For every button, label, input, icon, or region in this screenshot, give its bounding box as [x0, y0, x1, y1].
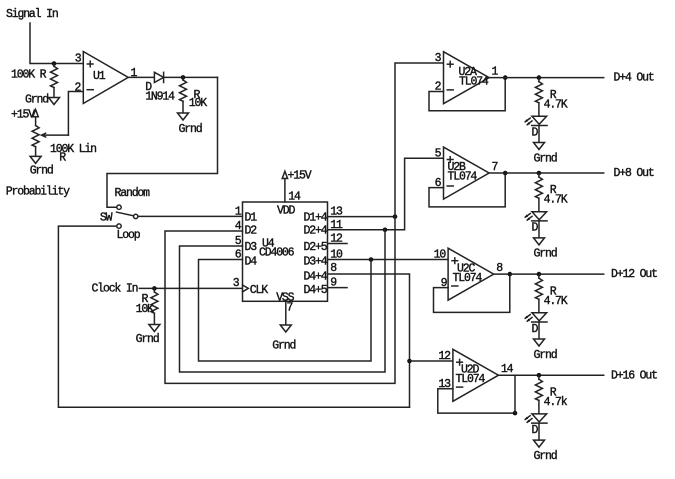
- wire U1 output to diode: [128, 76, 154, 78]
- svg-text:VDD: VDD: [277, 205, 295, 218]
- wire switch common to U4 pin 1: [138, 215, 243, 217]
- op-amp U2D minus sign: [457, 386, 463, 388]
- svg-text:4.7K: 4.7K: [544, 295, 568, 308]
- node junction at R top (U2B channel): [537, 171, 542, 176]
- svg-text:Probability: Probability: [6, 186, 70, 199]
- node junction at R top (U2A channel): [537, 75, 542, 80]
- wire U2B output: [489, 172, 604, 174]
- wire pot bottom to ground: [35, 147, 37, 157]
- svg-text:D+4 Out: D+4 Out: [614, 72, 654, 85]
- svg-text:8: 8: [330, 262, 337, 275]
- svg-text:1N914: 1N914: [145, 91, 175, 104]
- svg-text:D4+4: D4+4: [304, 271, 328, 284]
- resistor R1 100K body: [53, 64, 55, 67]
- node junction at R1 top: [52, 61, 57, 66]
- node junction D1+4: [393, 214, 398, 219]
- op-amp U2A plus sign: [447, 63, 453, 65]
- resistor R 4.7k body (U2D channel): [538, 375, 540, 379]
- wire +15V to pot: [35, 117, 37, 126]
- LED D (U2D channel): [532, 414, 547, 422]
- resistor R 4.7K body (U2B channel): [538, 173, 540, 177]
- resistor R4 10K body: [153, 288, 155, 292]
- potentiometer R2 100K Lin body: [32, 126, 39, 147]
- wire Signal In to U1 pin 3: [30, 23, 83, 64]
- wire U4 pin 10 D3+4 to U2C pin 10: [328, 259, 449, 261]
- wire LED to ground (U2A channel): [538, 126, 540, 143]
- svg-text:D3+4: D3+4: [304, 256, 328, 269]
- wire U4 VSS pin 7 to ground: [285, 301, 287, 325]
- svg-text:+15V: +15V: [288, 170, 312, 183]
- ground symbol (U2B channel): [534, 238, 545, 245]
- svg-text:D+8 Out: D+8 Out: [614, 167, 654, 180]
- ground symbol below R3: [178, 113, 189, 120]
- wire diode node to switch Random: [107, 77, 218, 207]
- svg-text:D2+5: D2+5: [304, 241, 328, 254]
- svg-text:Grnd: Grnd: [272, 340, 295, 353]
- op-amp U2D triangle: [453, 349, 499, 401]
- svg-text:2: 2: [75, 82, 82, 95]
- switch SW lever: [117, 212, 134, 216]
- wire LED to ground (U2C channel): [538, 322, 540, 339]
- svg-text:D+16 Out: D+16 Out: [611, 369, 657, 382]
- node junction at R3 top: [181, 75, 186, 80]
- svg-text:D3: D3: [245, 241, 258, 254]
- ground symbol (U2A channel): [534, 143, 545, 150]
- svg-text:14: 14: [501, 363, 514, 376]
- svg-text:14: 14: [288, 190, 301, 203]
- wire LED to ground (U2B channel): [538, 221, 540, 238]
- wire U2D output: [499, 374, 604, 376]
- svg-text:D2+4: D2+4: [304, 224, 328, 237]
- wire D1+4 riser to U2A pin 3: [395, 63, 444, 217]
- LED D (U2C channel): [532, 313, 547, 321]
- svg-text:TL074: TL074: [448, 171, 478, 184]
- node junction U2D feedback: [513, 411, 518, 416]
- op-amp U2B plus sign: [447, 159, 453, 161]
- svg-text:100K R: 100K R: [11, 69, 47, 82]
- svg-text:TL074: TL074: [456, 373, 486, 386]
- op-amp U2A triangle: [444, 52, 490, 104]
- svg-text:Random: Random: [115, 187, 151, 200]
- svg-text:Loop: Loop: [117, 229, 141, 242]
- svg-text:Grnd: Grnd: [534, 450, 557, 463]
- U4 clock chevron: [243, 285, 249, 292]
- wire U2D feedback: [438, 389, 515, 413]
- svg-text:4.7k: 4.7k: [544, 396, 568, 409]
- wire U2A feedback: [429, 78, 505, 111]
- node junction D3+4: [369, 257, 374, 262]
- svg-text:4.7K: 4.7K: [544, 194, 568, 207]
- node junction U2B output: [503, 171, 508, 176]
- switch SW Random contact: [117, 205, 121, 209]
- op-amp U1 triangle: [83, 52, 128, 104]
- switch SW common contact: [134, 214, 138, 218]
- svg-text:D: D: [532, 222, 539, 235]
- svg-text:4.7K: 4.7K: [544, 98, 568, 111]
- op-amp U2D plus sign: [457, 361, 463, 363]
- svg-text:D1: D1: [245, 212, 258, 225]
- wire U4 pin 13 D1+4: [328, 216, 396, 218]
- wire D3+4 loop back to U4 pin 6: [199, 260, 372, 362]
- wire U2A output: [489, 77, 604, 79]
- svg-text:CD4006: CD4006: [259, 247, 295, 260]
- wire U2C feedback: [434, 274, 510, 312]
- node junction D2+4: [383, 228, 388, 233]
- wire U4 pin 11 D2+4 to U2B pin 5: [328, 158, 444, 230]
- svg-text:+15V: +15V: [11, 109, 35, 122]
- op-amp U2A minus sign: [447, 89, 453, 91]
- wire U4 pin 8 D4+4 down to loop: [328, 274, 410, 407]
- wire U2C output: [494, 273, 604, 275]
- wire Clock In to U4 pin 3: [139, 287, 242, 289]
- svg-text:12: 12: [438, 350, 451, 363]
- ground symbol (U2D channel): [534, 440, 545, 447]
- svg-text:D4: D4: [245, 256, 258, 269]
- ground symbol below R4: [149, 325, 160, 332]
- wire D4+4 to U2D pin 12: [410, 360, 453, 362]
- op-amp U2C triangle: [448, 248, 494, 300]
- ground symbol below R1: [49, 98, 60, 105]
- switch SW Loop contact: [117, 224, 121, 228]
- svg-text:TL074: TL074: [453, 272, 483, 285]
- diode D 1N914: [154, 72, 163, 82]
- op-amp U2C plus sign: [452, 260, 458, 262]
- svg-text:1: 1: [492, 66, 499, 79]
- wire D1+4 loop back to U4 pin 4: [165, 217, 395, 384]
- svg-text:10: 10: [434, 249, 447, 262]
- svg-text:7: 7: [492, 161, 498, 174]
- node junction D4+4 at U2D input: [407, 359, 412, 364]
- op-amp U2C minus sign: [452, 285, 458, 287]
- LED D (U2A channel): [532, 116, 547, 124]
- op-amp U2B minus sign: [447, 185, 453, 187]
- wire diode to corner: [164, 76, 218, 78]
- wire +15V to U4 VDD pin 14: [284, 179, 286, 203]
- svg-text:Clock In: Clock In: [92, 282, 138, 295]
- svg-text:Grnd: Grnd: [534, 152, 557, 165]
- ground symbol below U4: [280, 325, 291, 332]
- wire wiper to U1 pin 2: [68, 92, 83, 136]
- resistor R3 10K body: [182, 77, 184, 80]
- resistor R 4.7K body (U2C channel): [538, 274, 540, 278]
- svg-text:D: D: [532, 323, 539, 336]
- wire U2D feedback riser: [514, 375, 516, 413]
- op-amp U2B triangle: [444, 147, 490, 199]
- svg-text:Grnd: Grnd: [136, 333, 159, 346]
- svg-text:Grnd: Grnd: [534, 248, 557, 261]
- wire U4 pin 9 stub: [328, 287, 348, 289]
- svg-text:TL074: TL074: [459, 75, 489, 88]
- svg-text:D2: D2: [245, 224, 258, 237]
- svg-text:D1+4: D1+4: [304, 212, 328, 225]
- node junction at R top (U2C channel): [537, 272, 542, 277]
- op-amp U1 minus sign: [87, 89, 93, 91]
- ground symbol (U2C channel): [534, 339, 545, 346]
- node junction U2C output: [508, 272, 513, 277]
- node junction U2A output: [503, 75, 508, 80]
- svg-text:D4+5: D4+5: [304, 284, 328, 297]
- power arrow +15V (U4 VDD): [282, 171, 287, 178]
- LED D (U2B channel): [532, 212, 547, 220]
- svg-text:D+12 Out: D+12 Out: [611, 268, 657, 281]
- svg-text:Grnd: Grnd: [534, 349, 557, 362]
- wire U4 pin 12 stub: [328, 243, 348, 245]
- wire D2+4 loop back to U4 pin 5: [180, 230, 386, 372]
- node junction at R top (U2D channel): [537, 373, 542, 378]
- wire U2B feedback: [429, 173, 505, 207]
- svg-text:D: D: [532, 126, 539, 139]
- power arrow +15V (pot): [33, 110, 38, 117]
- svg-text:Signal In: Signal In: [6, 8, 58, 21]
- svg-text:8: 8: [496, 262, 503, 275]
- op-amp U1 plus sign: [87, 63, 93, 65]
- ground symbol below pot: [30, 156, 41, 163]
- wire Loop contact around to D4+4 net: [58, 226, 409, 407]
- svg-text:SW: SW: [100, 211, 113, 224]
- svg-text:10K: 10K: [189, 97, 207, 110]
- svg-text:Grnd: Grnd: [30, 165, 53, 178]
- svg-text:CLK: CLK: [250, 284, 268, 297]
- wire LED to ground (U2D channel): [538, 423, 540, 440]
- node junction at R4 top: [152, 286, 157, 291]
- svg-text:100K Lin: 100K Lin: [50, 143, 96, 156]
- svg-text:Grnd: Grnd: [179, 123, 202, 136]
- svg-text:10K: 10K: [136, 303, 154, 316]
- svg-text:Grnd: Grnd: [25, 94, 48, 107]
- resistor R 4.7K body (U2A channel): [538, 78, 540, 82]
- IC U4 CD4006 body: [243, 202, 328, 301]
- svg-text:7: 7: [287, 302, 293, 315]
- potentiometer wiper arrow: [44, 134, 69, 136]
- svg-text:D: D: [532, 424, 539, 437]
- svg-text:U1: U1: [93, 70, 106, 83]
